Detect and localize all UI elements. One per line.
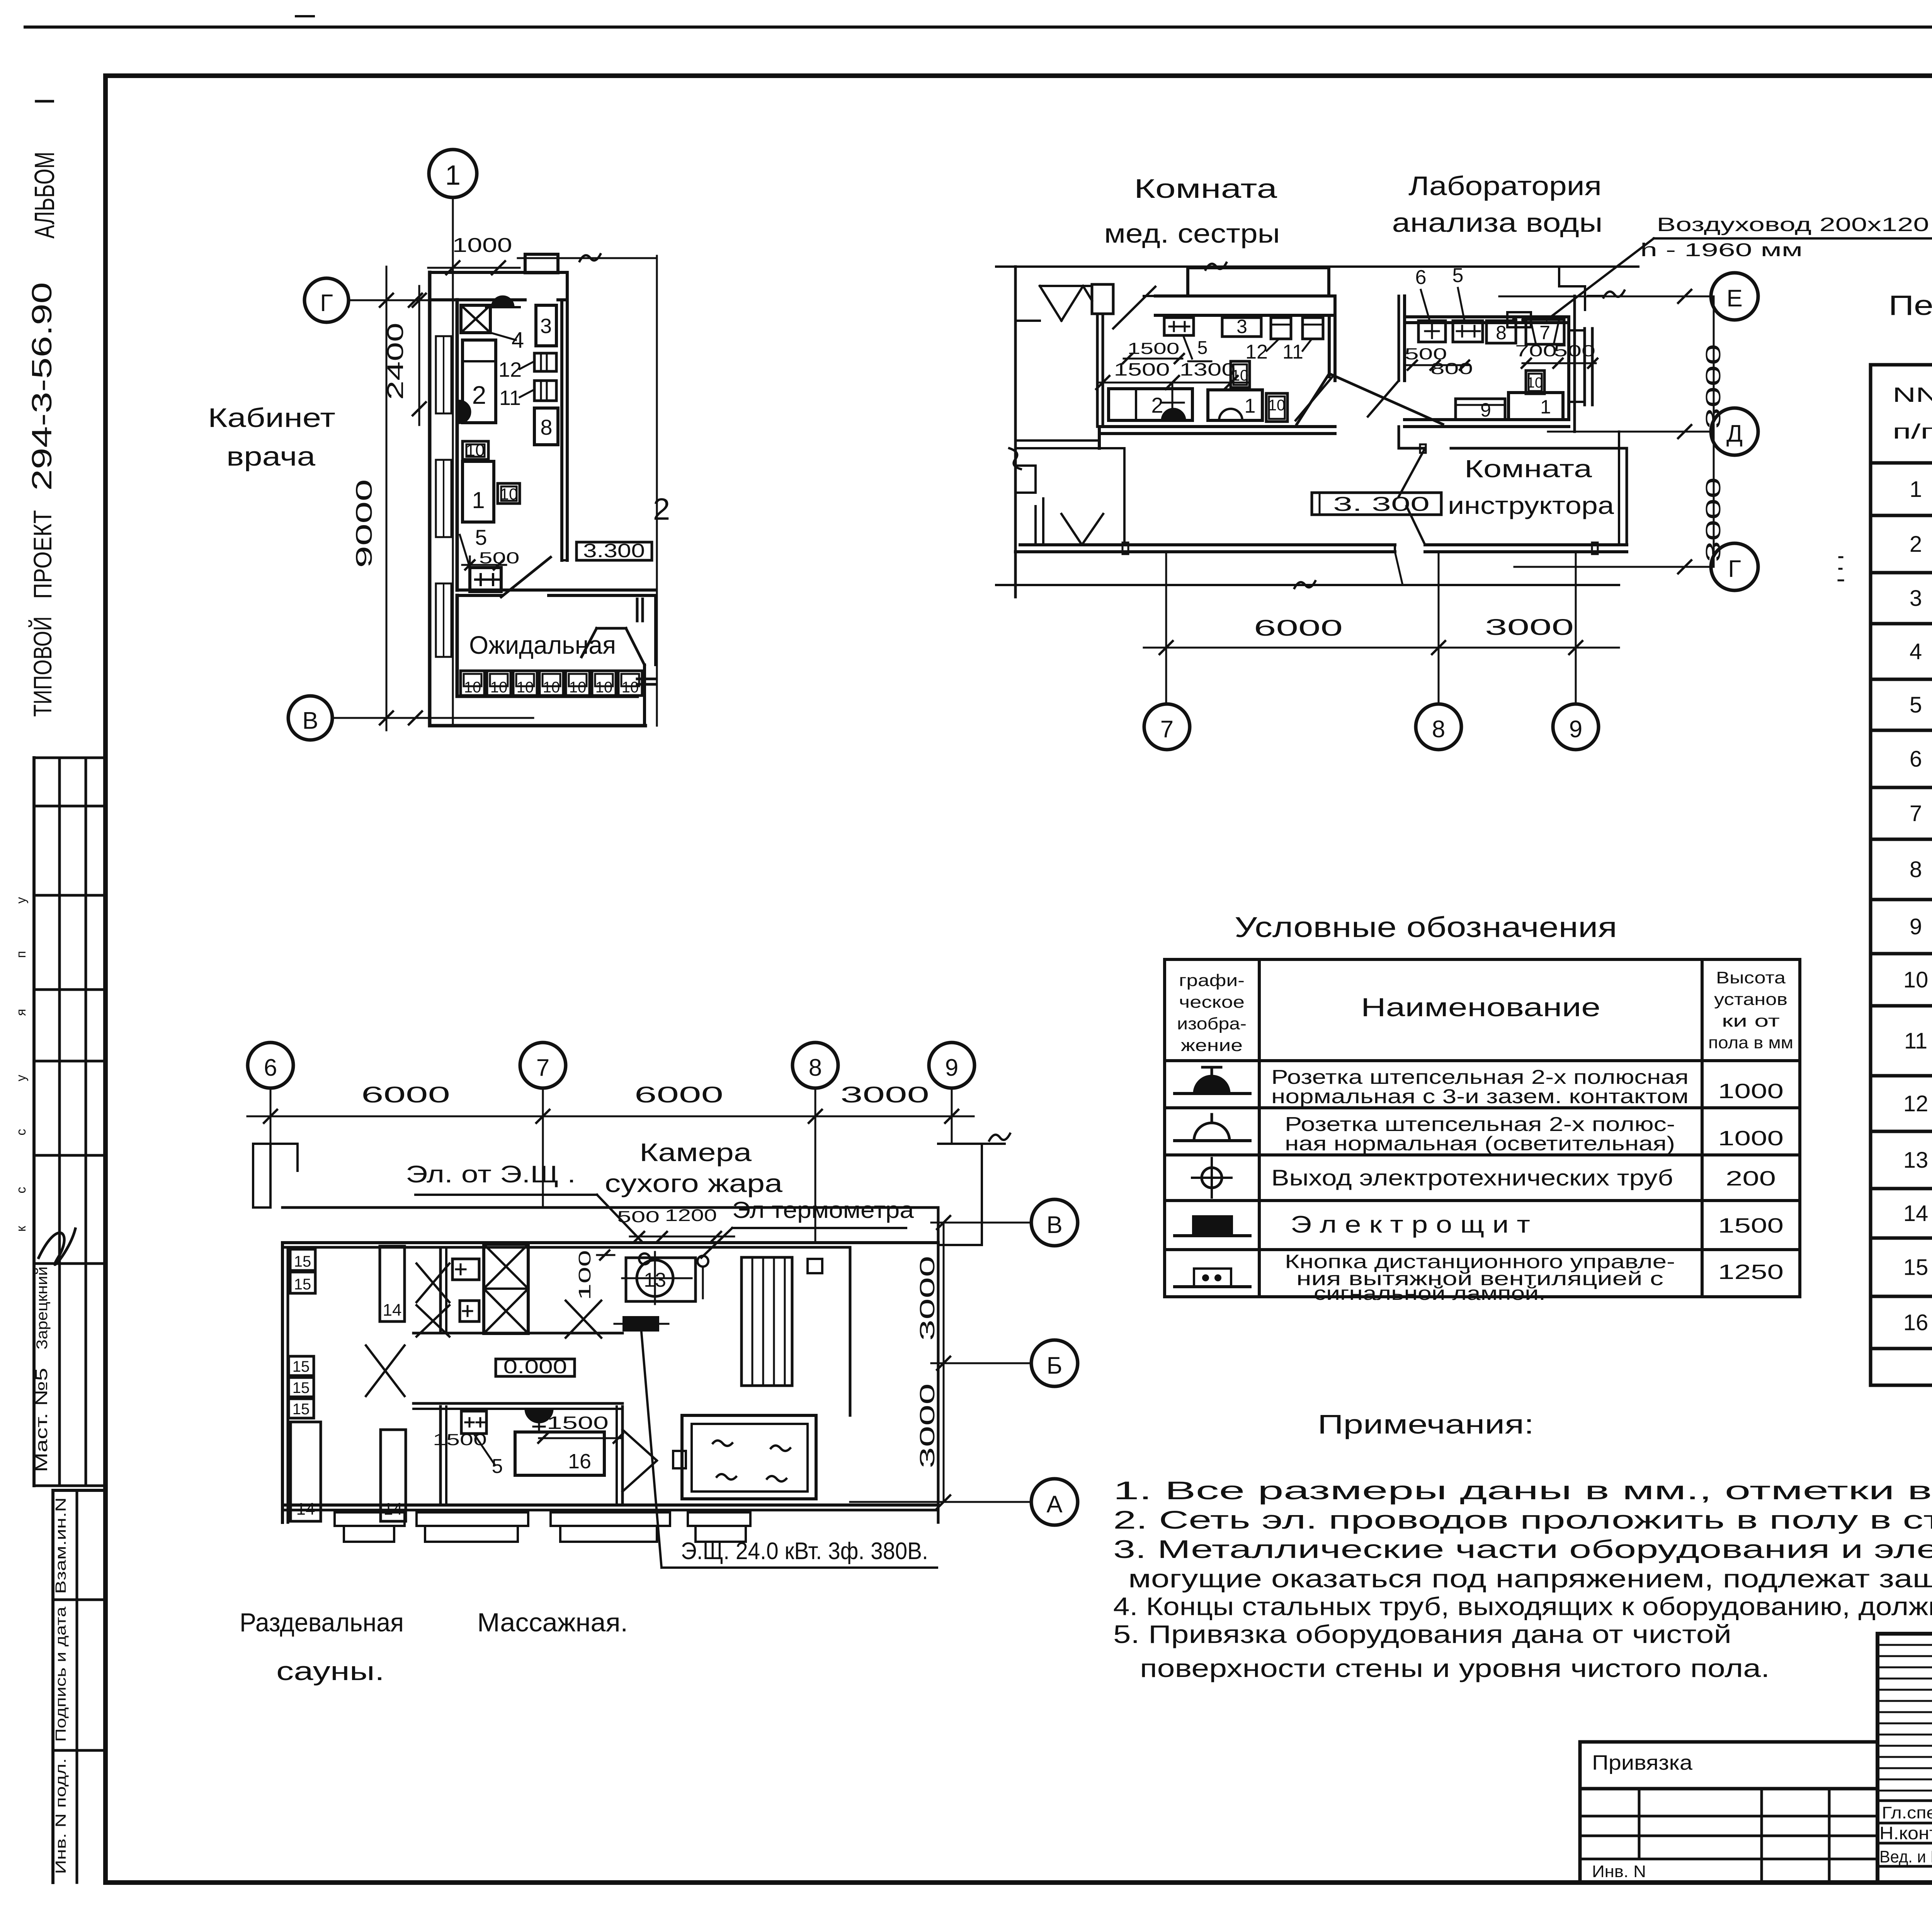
svg-text:ческое: ческое [1179,993,1245,1012]
scan dash top [296,15,314,17]
plan2 room1 item 10a [1231,361,1250,388]
svg-text:1000: 1000 [452,234,512,257]
svg-text:3000: 3000 [916,1383,939,1468]
svg-text:Эл. от Э.Щ .: Эл. от Э.Щ . [406,1161,576,1188]
svg-text:Зарецкний: Зарецкний [34,1267,51,1350]
plan2 room1 left wall [1097,314,1103,427]
plan2 left edge [1009,267,1021,597]
svg-text:врача: врача [226,441,315,471]
svg-text:8: 8 [1496,322,1507,344]
svg-text:14: 14 [384,1500,403,1519]
svg-text:3000: 3000 [916,1256,939,1341]
plan2 note vozduhovod [1547,214,1932,320]
equipment table title [1889,290,1932,359]
svg-text:7: 7 [536,1054,549,1081]
plan3 axis circle 8 [793,1043,838,1243]
svg-text:Кабинет: Кабинет [208,403,335,433]
svg-text:500: 500 [617,1207,660,1226]
svg-text:700: 700 [1515,342,1557,360]
svg-text:Подпись и дата: Подпись и дата [53,1606,69,1742]
plan3 axis circle A [1031,1479,1078,1525]
legend header graficheskoe [1177,971,1247,1055]
svg-text:1000: 1000 [1718,1080,1784,1103]
svg-text:10: 10 [595,679,613,696]
svg-text:15: 15 [1903,1255,1929,1280]
plan3 elektroshchit black [614,1317,668,1330]
plan2 bottom wall [996,545,1627,588]
plan1 item 8 [534,408,558,445]
svg-text:15: 15 [293,1401,310,1418]
svg-text:3000: 3000 [1702,477,1725,562]
svg-text:6000: 6000 [1254,616,1343,641]
svg-text:8: 8 [809,1054,822,1081]
plan1 right wall upper room [562,272,567,560]
svg-text:Б: Б [1047,1352,1063,1379]
svg-text:5: 5 [1452,264,1464,287]
svg-text:п: п [14,951,29,958]
svg-text:Высота: Высота [1716,968,1786,987]
note 3b [1128,1564,1932,1593]
svg-text:h - 1960 мм: h - 1960 мм [1640,240,1803,260]
plan1 room title Kabinet vracha [208,403,335,471]
plan2 lab sink 5 [1453,321,1483,342]
svg-text:ПРОЕКТ: ПРОЕКТ [28,510,57,599]
plan2 lab item 7 [1526,320,1564,344]
svg-text:14: 14 [383,1301,402,1320]
svg-text:инструктора: инструктора [1448,492,1614,519]
plan2 room1 dim 1500-1300 [1096,359,1248,389]
svg-text:3: 3 [1236,316,1247,337]
plan1 item 10b [498,483,520,503]
svg-text:200: 200 [1726,1167,1776,1190]
plan2 room1 socket [1162,409,1185,420]
plan3 axis circle V [1031,1199,1078,1246]
svg-text:0.000: 0.000 [503,1356,567,1378]
svg-text:графи-: графи- [1179,971,1245,990]
svg-text:к: к [14,1225,29,1231]
plan2 axis G2 [1514,543,1758,590]
plan2 room1 door top [1113,287,1155,328]
plan3 esh leader [641,1332,662,1568]
plan3 massazh dim 1500 [538,1413,623,1443]
svg-text:5. Привязка оборудования д: 5. Привязка оборудования дана от чистой [1113,1620,1731,1648]
plan1 socket left wall [459,401,470,423]
plan3 axis circle 9 [929,1043,975,1144]
plan1 item 1 desk [463,461,494,522]
plan1 vertical dim 2400 [383,286,426,425]
svg-text:2. Сеть эл. проводов прол: 2. Сеть эл. проводов проложить в полу в … [1113,1505,1932,1534]
svg-text:10: 10 [517,679,534,696]
plan1 axis circle V [288,696,533,740]
plan2 axis 7 circle [1144,552,1190,750]
plan3 note el ot esh [406,1161,641,1241]
plan2 duct step [1559,267,1624,310]
legend table grid [1165,959,1800,1297]
svg-text:2400: 2400 [383,323,408,400]
svg-text:1: 1 [445,160,461,191]
svg-text:Инв. N: Инв. N [1592,1862,1646,1881]
left stamp table upper grid [34,758,105,1486]
plan3 doors middle [366,1301,601,1396]
scan specks [1838,557,1932,585]
left margin text project number [27,282,58,717]
svg-text:1000: 1000 [1718,1127,1784,1150]
svg-text:294-3-56.90: 294-3-56.90 [27,282,58,491]
plan1 door swing corridor [501,557,551,597]
svg-text:15: 15 [294,1253,311,1270]
svg-text:Гл.спец: Гл.спец [1882,1803,1932,1822]
plan1 top wall [430,254,567,300]
svg-text:12: 12 [498,358,522,381]
plan2 title med sestry [1104,173,1280,248]
svg-text:установ: установ [1714,990,1787,1009]
plan3 axis circle 6 [248,1043,293,1144]
svg-text:11: 11 [1282,341,1303,363]
svg-text:4: 4 [1910,639,1922,664]
plan2 lab door [1368,381,1399,417]
plan2 room1 top wall [1155,268,1335,315]
plan2 lab pilaster [1570,328,1592,405]
svg-text:14: 14 [296,1500,315,1519]
plan1 item 10a [463,441,488,460]
plan2 lab button symbol [1507,312,1531,327]
plan1 item 11 [499,381,556,410]
svg-text:у: у [14,897,29,904]
plan2 mark 3.300 [1312,493,1441,515]
svg-text:могущие оказаться под на: могущие оказаться под напряжением, подле… [1128,1564,1932,1593]
svg-text:4: 4 [512,328,524,353]
svg-text:7: 7 [1539,322,1550,344]
plan2 lab dims [1405,342,1597,378]
svg-text:Д: Д [1726,420,1743,447]
plan2 title laboratorija [1392,171,1603,238]
svg-text:7: 7 [1910,801,1922,826]
plan3 dim 500 1200 [617,1206,734,1241]
plan2 room1 item 1 desk [1208,390,1262,420]
plan1 left wall [430,272,457,726]
equipment table header [1893,381,1932,448]
plan1 lower right stub [637,679,655,684]
plan1 mark 3.300 [577,540,652,561]
svg-text:6: 6 [1910,747,1922,772]
legend header naimenovanie [1361,993,1600,1022]
svg-text:п/п: п/п [1893,420,1932,443]
svg-text:Привязка: Привязка [1592,1751,1693,1774]
svg-text:пола в мм: пола в мм [1708,1033,1793,1052]
svg-text:16: 16 [568,1450,591,1473]
plan3 doors right [622,1430,657,1492]
plan3 axis circle 7 [520,1043,566,1207]
svg-text:10: 10 [569,679,587,696]
plan3 corridor top line [282,1206,938,1209]
plan2 room1 item 10b [1266,393,1287,422]
svg-text:12: 12 [1245,341,1268,363]
plan2 axis E [1499,273,1758,320]
plan3 left wall [282,1243,288,1522]
titleblock signature rows [1879,1803,1932,1866]
plan3 right wall [850,1207,938,1522]
plan3 dim 100 [575,1250,614,1300]
svg-text:Комната: Комната [1134,173,1277,204]
plan2 lab bottom wall [1399,420,1569,448]
left stamp tiny letters [14,897,29,1232]
plan2 lab item 9 [1456,399,1505,421]
plan2 title instruktora [1448,455,1614,519]
plan3 pool [673,1415,816,1499]
plan3 stove column crossed [484,1244,528,1333]
svg-text:1: 1 [1245,395,1256,417]
svg-text:10: 10 [1268,397,1286,414]
plan3 inner wall vertical 3 [617,1406,622,1505]
plan3 axis circle B [1031,1340,1078,1386]
plan3 top dims [247,1082,974,1123]
plan1 item 5 sink [460,525,520,592]
svg-text:жение: жение [1181,1036,1243,1055]
svg-text:1300: 1300 [1180,359,1236,379]
plan3 room labels [240,1608,628,1686]
legend row2 text [1285,1113,1784,1155]
svg-text:2: 2 [653,492,670,526]
svg-text:3.300: 3.300 [583,540,645,561]
svg-text:я: я [14,1009,29,1016]
svg-text:1500: 1500 [1114,359,1170,379]
svg-text:10: 10 [1231,367,1249,384]
svg-text:у: у [14,1075,29,1082]
legend row1 text [1271,1066,1784,1108]
plan3 mark 0.000 [496,1356,575,1378]
plan2 vertical dim 3000 lower [1702,477,1725,562]
svg-text:100: 100 [575,1250,594,1300]
plan3 top wall [282,1243,938,1247]
svg-text:3000: 3000 [1485,615,1574,640]
svg-text:16: 16 [1903,1310,1929,1335]
plan3 right upper corner [938,1134,1010,1245]
svg-text:1. Все размеры даны в м: 1. Все размеры даны в мм., отметки в мет… [1113,1476,1932,1505]
plan2 lab item 10 [1526,371,1544,394]
svg-text:12: 12 [1903,1091,1929,1116]
svg-text:1: 1 [1540,396,1551,418]
plan3 axis V line [931,1216,1032,1229]
left stamp text Zaretskij [34,1267,51,1350]
titleblock signature table grid [1878,1634,1932,1883]
svg-text:1500: 1500 [547,1413,609,1433]
svg-text:сухого жара: сухого жара [605,1169,782,1197]
plan3 right dim 3000 x2 [916,1223,944,1502]
legend symbol socket light [1175,1114,1250,1141]
plan2 window sill marks [1122,444,1598,554]
plan1 waiting chairs row item 10 [461,671,642,696]
legend header vysota [1708,968,1793,1052]
svg-text:Г: Г [320,290,333,316]
plan3 benches below wall [335,1512,750,1542]
plan1 item 12 [498,353,556,381]
legend row3 text [1271,1165,1776,1190]
svg-text:Вед. и Нж: Вед. и Нж [1879,1847,1932,1866]
plan1 vertical dim 9000 [352,267,393,730]
svg-text:Ожидальная: Ожидальная [469,631,616,659]
svg-text:10: 10 [464,679,481,696]
svg-text:8: 8 [1432,716,1445,743]
plan2 corridor lines [1123,448,1126,545]
svg-text:5: 5 [1197,338,1208,358]
equipment table cells [1903,465,1932,1345]
legend row5 text [1285,1251,1784,1304]
svg-text:Е: Е [1726,285,1742,312]
svg-text:9000: 9000 [352,479,377,568]
notes title [1318,1409,1534,1439]
svg-text:Наименование: Наименование [1361,993,1600,1022]
plan2 axis D [1548,408,1758,455]
plan3 inner wall vertical 1 [440,1247,446,1333]
svg-text:с: с [14,1187,29,1194]
plan3 bottom wall [282,1505,938,1510]
plan1 item 3 [536,305,556,346]
plan3 massazh top wall [413,1403,622,1409]
plan2 lab item 1 [1509,393,1563,420]
note 2 [1113,1505,1932,1534]
left stamp label podpis [53,1606,69,1742]
plan2 room1 bottom wall [1015,427,1335,448]
svg-text:мед. сестры: мед. сестры [1104,218,1280,248]
svg-text:Воздуховод 200х120: Воздуховод 200х120 [1657,214,1929,235]
svg-text:10: 10 [543,679,560,696]
plan2 room1 item 11 [1282,318,1323,363]
note 5 [1113,1620,1731,1648]
svg-text:анализа воды: анализа воды [1392,207,1603,238]
plan1 dim line 2 top right [518,254,670,726]
svg-text:8: 8 [1910,857,1922,882]
svg-text:1500: 1500 [1718,1214,1784,1237]
svg-text:1: 1 [1910,477,1922,502]
svg-text:ная нормальная (осветительна: ная нормальная (осветительная) [1285,1133,1675,1155]
svg-text:Эл термометра: Эл термометра [732,1197,914,1223]
sheet top trim line [25,26,1932,29]
plan2 room1 item 2 couch [1109,383,1192,420]
plan1 lower room walls [430,595,655,726]
plan1 item 2 couch [463,340,496,423]
plan3 small box top right [808,1259,822,1273]
plan3 sink boxes top [452,1259,479,1321]
plan2 lab right wall [1569,296,1575,432]
plan2 lab sink 6 [1418,321,1446,342]
svg-text:7: 7 [1160,716,1173,743]
plan1 zigzag door lower right [582,628,645,665]
svg-text:8: 8 [540,415,552,439]
svg-text:15: 15 [293,1358,310,1375]
note 5b [1140,1654,1770,1682]
equipment table grid [1871,365,1932,1385]
note 1 [1113,1476,1932,1505]
svg-text:10: 10 [490,679,508,696]
svg-text:поверхности стены и уровн: поверхности стены и уровня чистого пола. [1140,1654,1770,1682]
svg-text:с: с [14,1129,29,1136]
plan2 vertical dim 3000 upper [1702,296,1725,567]
svg-text:5: 5 [1910,692,1922,718]
svg-text:В: В [1046,1212,1062,1238]
svg-text:I: I [29,97,60,105]
plan1 axis circle 1 [429,150,477,726]
plan3 item14 mid top [380,1246,405,1321]
svg-text:сигнальной лампой.: сигнальной лампой. [1314,1282,1546,1304]
svg-text:ки от: ки от [1722,1012,1780,1031]
plan2 bottom door gaps [1395,506,1425,585]
svg-text:изобра-: изобра- [1177,1014,1247,1033]
svg-text:10: 10 [1527,375,1543,391]
left stamp text Mast N5 [32,1368,51,1472]
plan3 inner wall mid [413,1332,622,1335]
plan3 inner wall vertical 2 [440,1406,446,1505]
svg-text:5: 5 [492,1455,503,1478]
svg-text:9: 9 [1480,399,1491,421]
plan2 lab top wall [1399,296,1569,381]
plan3 doors upper [417,1264,449,1337]
titleblock privjazka grid [1580,1789,1878,1883]
plan3 axis B line [931,1357,1032,1370]
svg-text:11: 11 [1904,1029,1927,1054]
svg-text:Лаборатория: Лаборатория [1408,171,1602,201]
plan1 axis circle G [304,278,430,322]
legend symbol tube exit [1192,1158,1231,1197]
svg-text:15: 15 [294,1276,311,1293]
titleblock privjazka box [1580,1742,1878,1789]
plan2 top boundary line [996,263,1638,270]
plan2 axis 8 circle [1416,552,1461,750]
plan2 left wall fragments [1015,284,1113,321]
plan2 room1 item 3 [1222,316,1261,337]
plan3 stairs block [742,1257,792,1386]
plan3 item15 boxes top [290,1249,315,1293]
plan2 left lower wall fragments [1015,466,1103,545]
svg-text:Массажная.: Массажная. [477,1608,628,1637]
svg-text:3: 3 [1910,586,1922,611]
legend symbol knopka [1175,1269,1250,1287]
plan3 couch 16 [515,1432,604,1475]
plan1 item 4 crossed box [461,305,524,353]
svg-text:АЛЬБОМ: АЛЬБОМ [29,152,60,239]
plan3 esh label [662,1538,937,1568]
plan3 item13 device [622,1252,708,1304]
left margin text ALBOM I [29,97,60,239]
svg-text:1500: 1500 [433,1430,487,1449]
svg-text:2: 2 [1151,393,1163,417]
svg-text:2: 2 [1910,532,1922,557]
svg-text:3000: 3000 [840,1082,929,1107]
svg-text:6000: 6000 [361,1082,450,1107]
svg-text:сауны.: сауны. [276,1656,384,1686]
plan2 room1 furniture sink5 [1123,318,1211,363]
svg-text:Примечания:: Примечания: [1318,1409,1534,1439]
left stamp signature scribble [39,1229,75,1265]
plan2 room1 right wall [1329,296,1335,381]
plan2 axis 9 circle [1553,552,1599,750]
plan2 bottom dims 6000 3000 [1144,615,1619,654]
legend symbol socket grounded [1175,1067,1250,1094]
note 3 [1113,1535,1932,1563]
svg-text:3. 300: 3. 300 [1333,493,1430,515]
svg-text:9: 9 [1910,914,1922,939]
plan1 left wall windows [436,336,451,657]
svg-text:6: 6 [264,1054,277,1081]
left stamp label vzam [53,1497,69,1594]
svg-text:6000: 6000 [634,1082,723,1107]
svg-text:1500: 1500 [1128,339,1180,357]
svg-text:10: 10 [1903,968,1929,993]
plan2 room1 item 12 [1245,318,1291,363]
plan1 corridor wall [457,590,655,621]
svg-text:10: 10 [500,485,518,503]
svg-text:Выход электротехнических тру: Выход электротехнических труб [1271,1165,1673,1190]
left stamp table lower grid [53,1490,105,1883]
